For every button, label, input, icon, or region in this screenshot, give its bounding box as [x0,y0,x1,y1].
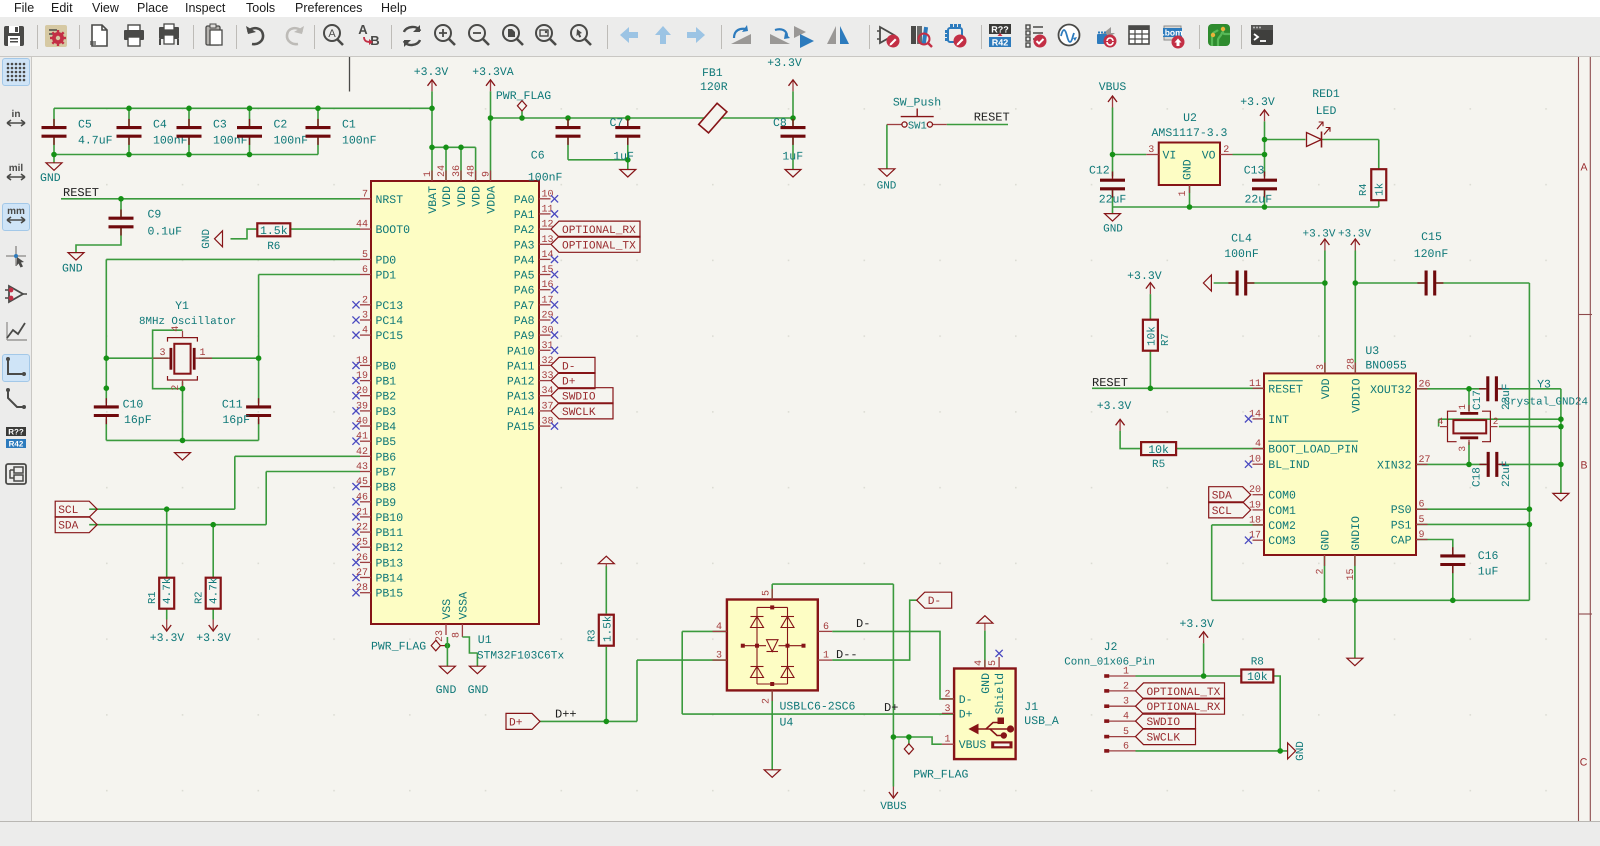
svg-text:XOUT32: XOUT32 [1370,384,1412,397]
svg-text:+3.3V: +3.3V [1240,96,1275,109]
svg-text:U1: U1 [478,634,492,647]
svg-text:VBAT: VBAT [427,186,440,214]
svg-text:SCL: SCL [58,505,78,517]
svg-text:SDA: SDA [58,521,78,533]
svg-text:D++: D++ [555,708,577,722]
svg-text:SW1: SW1 [908,120,927,132]
svg-text:D+: D+ [959,708,973,721]
svg-text:B: B [370,33,379,48]
svg-text:27: 27 [1419,455,1431,466]
svg-text:RESET: RESET [1092,376,1128,390]
svg-text:44: 44 [356,220,368,231]
svg-text:+3.3V: +3.3V [1127,270,1162,283]
svg-text:Y3: Y3 [1537,378,1551,391]
svg-text:PA12: PA12 [507,376,535,389]
svg-text:22uF: 22uF [1501,461,1513,487]
svg-text:BOOT0: BOOT0 [376,224,411,237]
svg-text:45: 45 [356,477,368,488]
svg-text:R3: R3 [587,629,599,642]
svg-text:VDD: VDD [1320,378,1333,399]
svg-text:Crystal_GND24: Crystal_GND24 [1504,397,1588,409]
svg-text:16pF: 16pF [124,414,152,427]
svg-text:20: 20 [356,386,368,397]
svg-text:100nF: 100nF [1224,248,1259,261]
svg-text:+3.3V: +3.3V [767,57,802,70]
svg-text:Shield: Shield [994,673,1007,714]
svg-text:+3.3V: +3.3V [414,66,449,79]
svg-text:+3.3V: +3.3V [150,632,185,645]
svg-text:11: 11 [542,204,554,215]
svg-text:4.7uF: 4.7uF [78,135,113,148]
svg-text:J2: J2 [1104,641,1118,654]
svg-text:1: 1 [200,348,206,359]
svg-text:PD1: PD1 [376,270,397,283]
svg-text:PC14: PC14 [376,315,404,328]
svg-text:24: 24 [437,165,448,177]
svg-text:U3: U3 [1365,345,1379,358]
svg-text:VSS: VSS [441,599,454,620]
svg-text:25: 25 [356,538,368,549]
svg-text:D+: D+ [562,377,576,389]
svg-text:29: 29 [542,311,554,322]
svg-text:D+: D+ [884,701,898,715]
svg-text:PB5: PB5 [376,436,397,449]
svg-text:U4: U4 [780,717,794,730]
svg-text:PA14: PA14 [507,406,535,419]
svg-text:PWR_FLAG: PWR_FLAG [496,90,551,103]
svg-text:PB4: PB4 [376,421,397,434]
svg-text:PB13: PB13 [376,557,404,570]
svg-text:GND: GND [1103,224,1123,236]
svg-text:R6: R6 [267,241,280,253]
svg-text:120R: 120R [700,81,728,94]
svg-text:VBUS: VBUS [959,739,987,752]
svg-text:2: 2 [1316,569,1327,575]
svg-text:AMS1117-3.3: AMS1117-3.3 [1152,127,1228,140]
svg-text:PB2: PB2 [376,391,397,404]
svg-text:BL_IND: BL_IND [1268,459,1310,472]
svg-text:PB12: PB12 [376,542,404,555]
svg-text:PA15: PA15 [507,421,535,434]
svg-text:3: 3 [716,651,722,662]
svg-text:48: 48 [467,165,478,177]
svg-text:39: 39 [356,401,368,412]
svg-text:C3: C3 [213,119,227,132]
svg-text:C6: C6 [531,150,545,163]
svg-text:9: 9 [1419,530,1425,541]
svg-text:D-: D- [959,694,973,707]
svg-text:NRST: NRST [376,194,404,207]
svg-text:PA6: PA6 [514,285,535,298]
svg-text:8MHz Oscillator: 8MHz Oscillator [139,316,236,328]
svg-text:1: 1 [944,735,950,746]
svg-text:6: 6 [1419,500,1425,511]
svg-text:4: 4 [362,326,368,337]
svg-text:43: 43 [356,462,368,473]
svg-text:10k: 10k [1148,444,1169,457]
svg-text:1: 1 [823,651,829,662]
svg-text:GND: GND [1182,159,1195,180]
svg-text:2: 2 [944,689,950,700]
svg-text:38: 38 [542,417,554,428]
svg-text:COM3: COM3 [1268,535,1296,548]
svg-text:PB1: PB1 [376,376,397,389]
svg-text:17: 17 [542,295,554,306]
svg-text:Y1: Y1 [175,300,189,313]
svg-text:40: 40 [356,417,368,428]
svg-text:22uF: 22uF [1245,194,1273,207]
svg-text:C8: C8 [773,117,787,130]
svg-text:GND: GND [468,684,489,697]
svg-text:PB9: PB9 [376,497,397,510]
svg-text:C18: C18 [1472,467,1484,487]
svg-text:A: A [1580,162,1587,174]
svg-text:R1: R1 [147,591,159,604]
svg-text:3: 3 [362,311,368,322]
svg-text:4.7k: 4.7k [209,577,221,604]
svg-text:OPTIONAL_TX: OPTIONAL_TX [1147,687,1221,699]
svg-text:PWR_FLAG: PWR_FLAG [371,641,426,654]
svg-text:C7: C7 [610,117,624,130]
svg-text:7: 7 [362,189,368,200]
svg-text:PA9: PA9 [514,330,535,343]
svg-text:PWR_FLAG: PWR_FLAG [913,768,968,781]
svg-text:0.1uF: 0.1uF [148,226,183,239]
svg-text:3: 3 [1148,145,1154,156]
svg-text:5: 5 [362,250,368,261]
svg-text:1: 1 [1178,190,1189,196]
svg-text:+3.3V: +3.3V [1302,229,1335,241]
svg-text:PC15: PC15 [376,330,404,343]
svg-text:18: 18 [356,356,368,367]
svg-text:GNDIO: GNDIO [1350,516,1363,551]
svg-text:28: 28 [356,583,368,594]
svg-text:GND: GND [201,229,213,249]
svg-text:PB11: PB11 [376,527,404,540]
svg-text:Conn_01x06_Pin: Conn_01x06_Pin [1064,656,1155,668]
svg-text:41: 41 [356,432,368,443]
svg-text:46: 46 [356,492,368,503]
svg-text:R5: R5 [1152,459,1165,471]
svg-text:2: 2 [171,385,182,391]
svg-text:VBUS: VBUS [880,801,907,813]
svg-text:PA5: PA5 [514,270,535,283]
svg-text:VI: VI [1163,150,1177,163]
svg-text:11: 11 [1249,379,1261,390]
svg-text:PA2: PA2 [514,224,535,237]
svg-text:14: 14 [542,250,554,261]
svg-text:26: 26 [1419,379,1431,390]
svg-text:C10: C10 [123,399,144,412]
svg-text:+3.3VA: +3.3VA [472,66,514,79]
svg-text:1.5k: 1.5k [260,225,288,238]
svg-text:28: 28 [1346,358,1357,370]
svg-text:VSSA: VSSA [457,592,470,620]
svg-text:16pF: 16pF [222,414,250,427]
svg-text:PA7: PA7 [514,300,535,313]
svg-text:3: 3 [1123,697,1129,708]
svg-text:PB6: PB6 [376,451,397,464]
svg-text:5: 5 [988,660,999,666]
svg-text:STM32F103C6Tx: STM32F103C6Tx [477,651,565,663]
svg-text:GND: GND [980,673,993,694]
svg-text:C9: C9 [148,209,162,222]
svg-text:3: 3 [1316,364,1327,370]
svg-text:GND: GND [62,263,83,276]
svg-text:6: 6 [823,622,829,633]
svg-text:VDD: VDD [441,186,454,207]
svg-text:mm: mm [7,206,25,217]
svg-text:B: B [1580,460,1587,472]
svg-text:VBUS: VBUS [1099,81,1127,94]
svg-text:4: 4 [1438,416,1444,427]
svg-text:14: 14 [1249,409,1261,420]
svg-text:USBLC6-2SC6: USBLC6-2SC6 [780,701,856,714]
svg-text:C5: C5 [78,119,92,132]
svg-text:+3.3V: +3.3V [1179,618,1214,631]
svg-text:mil: mil [9,163,24,174]
svg-text:PA8: PA8 [514,315,535,328]
svg-text:PA11: PA11 [507,360,535,373]
svg-text:2: 2 [1223,145,1229,156]
svg-text:27: 27 [356,568,368,579]
svg-text:SW_Push: SW_Push [893,96,941,109]
svg-text:100nF: 100nF [342,135,377,148]
svg-text:COM0: COM0 [1268,490,1296,503]
svg-text:INT: INT [1268,414,1289,427]
svg-text:in: in [12,109,21,120]
svg-text:1k: 1k [1375,182,1387,196]
svg-text:22: 22 [356,523,368,534]
svg-text:C: C [1580,757,1588,769]
svg-text:A: A [358,22,368,37]
svg-text:PB8: PB8 [376,482,397,495]
svg-text:CAP: CAP [1391,535,1412,548]
svg-text:D+: D+ [509,717,523,729]
svg-text:PB3: PB3 [376,406,397,419]
svg-text:18: 18 [1249,515,1261,526]
svg-text:R42: R42 [9,440,24,449]
svg-text:22uF: 22uF [1099,194,1127,207]
svg-text:C1: C1 [342,119,356,132]
svg-text:SCL: SCL [1212,506,1232,518]
svg-text:+3.3V: +3.3V [1338,229,1371,241]
svg-text:C4: C4 [153,119,167,132]
svg-text:10k: 10k [1147,326,1159,346]
svg-text:PB10: PB10 [376,512,404,525]
svg-text:RESET: RESET [63,186,99,200]
svg-text:3: 3 [159,348,165,359]
svg-text:C17: C17 [1472,390,1484,410]
svg-text:17: 17 [1249,531,1261,542]
svg-text:PA4: PA4 [514,254,535,267]
svg-text:PA1: PA1 [514,209,535,222]
svg-text:4: 4 [974,660,985,666]
svg-text:15: 15 [542,265,554,276]
svg-text:15: 15 [1346,569,1357,581]
svg-text:PB7: PB7 [376,467,397,480]
svg-text:1uF: 1uF [1478,566,1499,579]
svg-text:LED: LED [1316,105,1337,118]
svg-text:PB15: PB15 [376,588,404,601]
svg-text:R42: R42 [992,38,1009,48]
svg-text:R??: R?? [8,428,24,437]
svg-text:1: 1 [423,171,434,177]
svg-text:PC13: PC13 [376,300,404,313]
svg-text:C15: C15 [1421,231,1442,244]
svg-text:30: 30 [542,326,554,337]
svg-text:1: 1 [1457,404,1468,410]
svg-text:VDDIO: VDDIO [1350,378,1363,413]
svg-text:PA0: PA0 [514,194,535,207]
svg-text:C16: C16 [1478,550,1499,563]
svg-text:1.5k: 1.5k [603,615,615,642]
svg-text:BNO055: BNO055 [1365,360,1407,373]
svg-text:C2: C2 [274,119,288,132]
svg-text:GND: GND [1320,530,1333,551]
svg-text:D-: D- [928,596,941,608]
svg-text:U2: U2 [1183,112,1197,125]
svg-text:4: 4 [171,326,182,332]
svg-text:SWCLK: SWCLK [1147,733,1181,745]
svg-text:CL4: CL4 [1231,232,1252,245]
svg-text:100nF: 100nF [274,135,309,148]
svg-text:4: 4 [1255,439,1261,450]
svg-text:PA10: PA10 [507,345,535,358]
svg-text:31: 31 [542,341,554,352]
svg-text:USB_A: USB_A [1024,715,1059,728]
svg-text:SWCLK: SWCLK [562,407,596,419]
svg-text:6: 6 [1123,741,1129,752]
svg-text:1uF: 1uF [613,150,634,163]
svg-text:PA3: PA3 [514,239,535,252]
svg-text:+3.3V: +3.3V [196,632,231,645]
svg-text:1: 1 [1123,667,1129,678]
svg-text:SWDIO: SWDIO [1147,717,1181,729]
svg-text:100nF: 100nF [528,172,563,185]
svg-text:4.7k: 4.7k [162,577,174,604]
svg-text:10: 10 [1249,455,1261,466]
svg-text:3: 3 [944,704,950,715]
svg-text:10k: 10k [1247,671,1268,684]
svg-text:+3.3V: +3.3V [1097,400,1132,413]
svg-text:SDA: SDA [1212,491,1232,503]
svg-text:XIN32: XIN32 [1377,459,1412,472]
svg-text:21: 21 [356,507,368,518]
svg-text:10: 10 [542,189,554,200]
svg-text:36: 36 [452,165,463,177]
svg-text:C11: C11 [222,399,243,412]
svg-text:SWDIO: SWDIO [562,392,596,404]
svg-text:D--: D-- [836,648,858,662]
svg-text:J1: J1 [1024,701,1038,714]
svg-text:VO: VO [1202,150,1216,163]
svg-text:VDD: VDD [471,186,484,207]
svg-text:8: 8 [451,632,462,638]
svg-text:OPTIONAL_TX: OPTIONAL_TX [562,240,636,252]
svg-text:2: 2 [1123,681,1129,692]
svg-text:5: 5 [1123,727,1129,738]
svg-text:GND: GND [40,172,61,185]
svg-text:C13: C13 [1244,164,1265,177]
svg-text:A: A [328,28,336,40]
svg-text:GND: GND [1295,741,1307,761]
svg-text:PS1: PS1 [1391,519,1412,532]
svg-text:26: 26 [356,553,368,564]
svg-text:GND: GND [877,180,897,192]
svg-text:D-: D- [562,361,575,373]
svg-text:3: 3 [1457,446,1468,452]
svg-text:VDDA: VDDA [486,186,499,214]
svg-text:120nF: 120nF [1414,248,1449,261]
svg-text:RED1: RED1 [1312,88,1340,101]
svg-text:6: 6 [362,265,368,276]
svg-text:OPTIONAL_RX: OPTIONAL_RX [562,225,636,237]
svg-text:PD0: PD0 [376,254,397,267]
svg-text:OPTIONAL_RX: OPTIONAL_RX [1147,702,1221,714]
svg-text:4: 4 [1123,712,1129,723]
svg-text:2: 2 [762,698,773,704]
svg-text:2: 2 [362,295,368,306]
svg-text:5: 5 [762,590,773,596]
svg-text:R4: R4 [1358,183,1370,196]
svg-text:D-: D- [856,617,870,631]
svg-text:GND: GND [436,684,457,697]
svg-text:PB0: PB0 [376,360,397,373]
svg-text:RESET: RESET [974,111,1010,125]
svg-text:2: 2 [1493,416,1499,427]
svg-text:23: 23 [435,630,446,642]
svg-text:R8: R8 [1251,656,1264,668]
svg-text:PA13: PA13 [507,391,535,404]
svg-text:FB1: FB1 [702,67,723,80]
svg-text:42: 42 [356,447,368,458]
svg-text:19: 19 [356,371,368,382]
svg-text:C12: C12 [1089,164,1110,177]
svg-text:BOOT_LOAD_PIN: BOOT_LOAD_PIN [1268,444,1358,457]
svg-text:16: 16 [542,280,554,291]
svg-text:R2: R2 [194,591,206,604]
svg-text:9: 9 [482,171,493,177]
svg-text:4: 4 [716,622,722,633]
svg-text:5: 5 [1419,515,1425,526]
svg-text:R7: R7 [1160,333,1172,346]
svg-text:COM1: COM1 [1268,505,1296,518]
svg-text:1uF: 1uF [782,150,803,163]
svg-text:PS0: PS0 [1391,504,1412,517]
svg-text:RESET: RESET [1268,383,1303,396]
svg-text:COM2: COM2 [1268,520,1296,533]
svg-text:VDD: VDD [456,186,469,207]
svg-text:PB14: PB14 [376,573,404,586]
